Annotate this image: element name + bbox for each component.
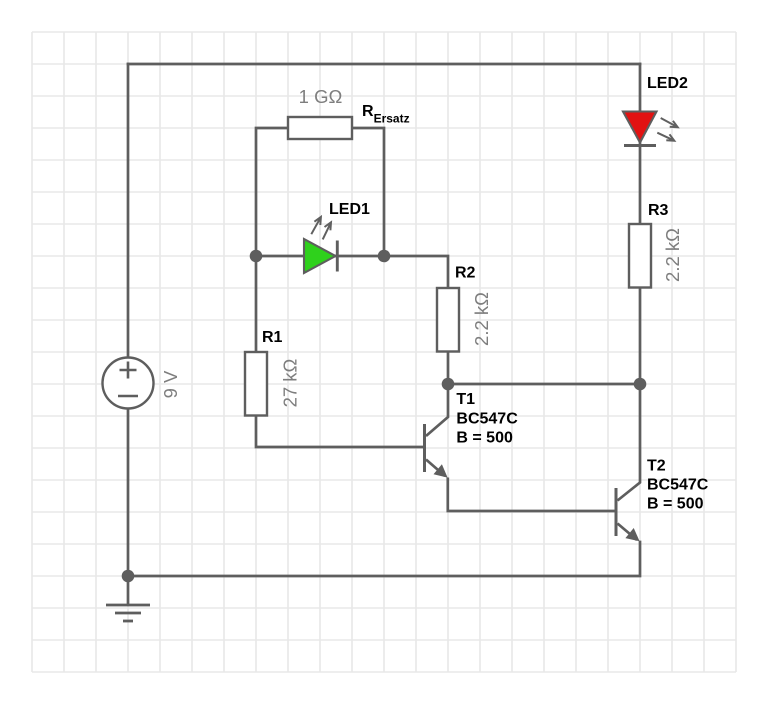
wire: R_Ersatz branch [256,128,384,256]
node: LED1 anode junction [250,250,263,263]
svg-text:2.2 kΩ: 2.2 kΩ [662,228,683,282]
ground [106,605,150,621]
svg-text:R1: R1 [262,329,283,346]
wire: R2 branch [384,256,448,384]
svg-text:9 V: 9 V [160,370,181,398]
wire: node A to node B link [448,383,640,386]
svg-text:2.2 kΩ: 2.2 kΩ [471,292,492,346]
node: T2 collector junction [634,378,647,391]
LED2 [623,112,678,146]
wire: bottom rail to T2 emitter [128,542,640,576]
svg-text:R3: R3 [648,202,669,219]
wire: battery branch from top rail down to ground node [127,64,130,576]
LED1 [304,217,337,273]
svg-text:R2: R2 [455,265,476,282]
node: LED1 cathode junction [378,250,391,263]
wire: right branch (LED2 / R3 / collector of T2) [639,64,642,384]
svg-text:LED2: LED2 [647,75,688,92]
node: T1 collector junction [442,378,455,391]
svg-text:B = 500: B = 500 [456,430,513,447]
svg-text:BC547C: BC547C [647,477,709,494]
resistor R3 [629,224,651,288]
resistor R_Ersatz [288,117,352,139]
svg-text:27 kΩ: 27 kΩ [280,358,301,407]
svg-text:1 GΩ: 1 GΩ [299,86,343,107]
svg-text:T1: T1 [456,391,475,408]
node: ground junction [122,570,135,583]
svg-text:LED1: LED1 [329,201,370,218]
wire: R1 branch down to T1 base [256,256,423,447]
wire: T1 emitter to T2 base [448,479,615,511]
svg-text:BC547C: BC547C [456,411,518,428]
battery V1 [103,358,154,409]
transistor T2 [616,384,640,540]
svg-text:T2: T2 [647,458,666,475]
wire: ground stub [127,576,130,605]
wire: LED1 branch [256,255,384,258]
resistor R2 [437,288,459,352]
transistor T1 [425,384,449,476]
resistor R1 [245,352,267,416]
wire: top rail [128,63,640,66]
svg-text:B = 500: B = 500 [647,496,704,513]
